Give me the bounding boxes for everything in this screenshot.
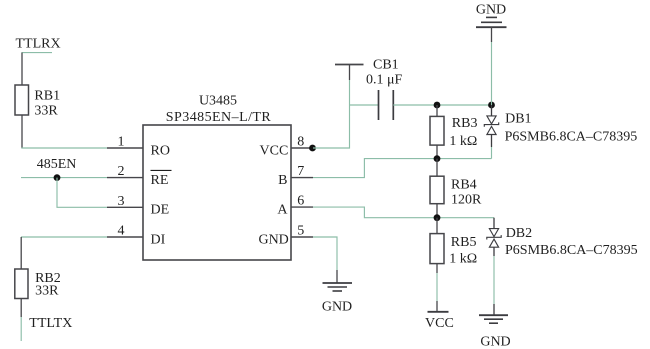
pin name A — [277, 203, 288, 218]
pin number 1 — [118, 135, 125, 150]
svg-text:DB1: DB1 — [505, 112, 531, 127]
junction rail-RB3 — [434, 102, 441, 109]
svg-text:1: 1 — [118, 135, 125, 150]
svg-text:DE: DE — [151, 203, 170, 218]
wire capacitor branch — [350, 104, 379, 106]
pin number 6 — [297, 194, 304, 209]
label RB3 1 kΩ — [449, 116, 477, 149]
svg-text:DI: DI — [151, 232, 166, 247]
label VCC — [425, 316, 454, 331]
label RB4 120R — [451, 178, 482, 208]
pin 6 stub — [291, 206, 313, 208]
junction 485EN node — [54, 174, 61, 181]
svg-text:GND: GND — [258, 232, 288, 247]
pin 2 stub — [107, 177, 143, 179]
wire 485EN to DE — [57, 178, 107, 208]
resistor RB1 — [15, 85, 29, 115]
pin number 2 — [118, 164, 125, 179]
svg-text:1 kΩ: 1 kΩ — [449, 134, 477, 149]
svg-text:RB1: RB1 — [34, 89, 60, 104]
label U3485 SP3485EN-L/TR — [166, 94, 272, 125]
pin name GND — [258, 232, 288, 247]
pin name VCC — [260, 143, 289, 158]
power VCC (bottom) — [428, 311, 449, 313]
svg-text:0.1 μF: 0.1 μF — [366, 72, 403, 87]
wire RB1 top lead — [21, 53, 23, 85]
pin 5 stub — [291, 236, 313, 238]
svg-text:7: 7 — [297, 164, 304, 179]
diode DB1 — [484, 105, 498, 159]
ground GND bottom right — [479, 315, 511, 349]
svg-text:P6SMB6.8CA–C78395: P6SMB6.8CA–C78395 — [505, 243, 638, 258]
wire TTLRX stub — [22, 52, 53, 54]
svg-text:SP3485EN–L/TR: SP3485EN–L/TR — [166, 110, 272, 125]
pin 4 stub — [107, 236, 143, 238]
pin number 7 — [297, 164, 304, 179]
pin number 5 — [297, 223, 304, 238]
wire GND top lead — [491, 27, 493, 105]
resistor RB2 — [15, 269, 28, 299]
wire RB2 top lead — [20, 237, 22, 269]
svg-text:33R: 33R — [35, 284, 59, 299]
svg-text:5: 5 — [297, 223, 304, 238]
pin number 8 — [297, 134, 304, 149]
pin name DI — [151, 232, 166, 247]
net label 485EN — [37, 157, 77, 172]
wire RB1 bottom lead — [21, 115, 23, 148]
pin name RO — [151, 143, 170, 158]
svg-text:1 kΩ: 1 kΩ — [449, 252, 477, 267]
svg-text:RO: RO — [151, 143, 170, 158]
diode DB2 — [487, 218, 501, 315]
pin number 3 — [118, 194, 125, 209]
svg-text:8: 8 — [297, 134, 304, 149]
label RB1 33R — [34, 89, 60, 119]
pin name DE — [151, 203, 170, 218]
ground GND bottom middle — [322, 283, 352, 314]
wire 485EN net — [21, 177, 107, 179]
resistor RB5 — [430, 218, 444, 264]
junction rail-DB1 — [488, 102, 495, 109]
IC U3485 body — [143, 125, 291, 260]
svg-text:120R: 120R — [451, 193, 482, 208]
wire RB2 bottom lead — [20, 299, 22, 318]
svg-text:RB5: RB5 — [451, 235, 477, 250]
svg-text:P6SMB6.8CA–C78395: P6SMB6.8CA–C78395 — [505, 130, 638, 145]
wire DI net — [21, 236, 107, 238]
pin 1 stub — [107, 147, 143, 149]
svg-text:B: B — [278, 173, 287, 188]
wire pin5 to GND — [313, 237, 337, 283]
wire A net — [313, 207, 494, 218]
svg-text:A: A — [277, 203, 288, 218]
label DB1 P6SMB6.8CA-C78395 — [505, 112, 638, 145]
junction B-RB3 — [434, 155, 441, 162]
power bar VCC (top) — [335, 65, 364, 81]
net label TTLRX — [16, 36, 61, 51]
svg-text:TTLRX: TTLRX — [16, 36, 61, 51]
svg-text:RB4: RB4 — [451, 178, 477, 193]
svg-text:RB3: RB3 — [452, 116, 478, 131]
junction pin8 node — [309, 145, 316, 152]
wire TTLTX stub — [20, 317, 22, 341]
svg-text:485EN: 485EN — [37, 157, 77, 172]
wire top rail — [393, 104, 491, 106]
svg-text:GND: GND — [480, 334, 510, 349]
svg-text:2: 2 — [118, 164, 125, 179]
svg-text:RE: RE — [151, 173, 169, 188]
wire B net — [313, 159, 492, 178]
wire pin8 to VCC riser — [313, 80, 350, 148]
pin 7 stub — [291, 177, 313, 179]
label DB2 P6SMB6.8CA-C78395 — [505, 226, 638, 258]
svg-text:CB1: CB1 — [373, 57, 399, 72]
svg-text:TTLTX: TTLTX — [29, 316, 72, 331]
ground GND top — [476, 3, 507, 28]
label RB5 1 kΩ — [449, 235, 477, 267]
svg-text:GND: GND — [476, 3, 506, 18]
pin name RE (overline) — [151, 170, 172, 188]
junction A-RB4 — [434, 214, 441, 221]
wire RB5 to VCC — [436, 264, 438, 312]
svg-text:33R: 33R — [34, 104, 58, 119]
pin 3 stub — [107, 206, 143, 208]
svg-text:3: 3 — [118, 194, 125, 209]
svg-text:6: 6 — [297, 194, 304, 209]
pin 8 stub — [291, 147, 313, 149]
capacitor CB1 — [379, 90, 394, 120]
wire RO net — [21, 147, 107, 149]
label CB1 0.1 uF — [366, 57, 403, 87]
svg-text:U3485: U3485 — [199, 94, 237, 109]
svg-text:4: 4 — [118, 224, 125, 239]
pin number 4 — [118, 224, 125, 239]
net label TTLTX — [29, 316, 72, 331]
svg-text:DB2: DB2 — [506, 226, 532, 241]
label RB2 33R — [35, 271, 61, 299]
svg-text:GND: GND — [322, 299, 352, 314]
svg-text:VCC: VCC — [425, 316, 454, 331]
svg-text:VCC: VCC — [260, 143, 289, 158]
resistor RB4 — [430, 159, 444, 218]
pin name B — [278, 173, 287, 188]
resistor RB3 — [430, 105, 444, 159]
